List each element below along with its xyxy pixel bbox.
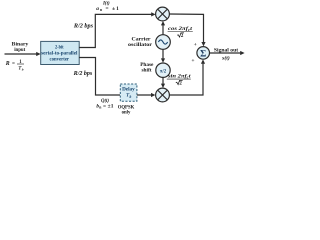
svg-text:+: + <box>194 42 197 48</box>
oscillator OSC1 <box>156 35 171 50</box>
wire: upper port out of converter <box>79 14 153 47</box>
svg-text:R/2 bps: R/2 bps <box>73 71 93 77</box>
svg-text:R: R <box>5 61 10 67</box>
svg-text:sin 2πfct: sin 2πfct <box>167 74 191 80</box>
svg-text:2: 2 <box>179 81 182 87</box>
svg-text:s(t): s(t) <box>221 57 230 62</box>
svg-text:2-bit: 2-bit <box>55 46 64 51</box>
box U1: 2-bit serial-to-parallel converter <box>41 41 79 64</box>
svg-text:=: = <box>12 61 15 67</box>
svg-text:b: b <box>130 95 132 99</box>
svg-text:serial-to-parallel: serial-to-parallel <box>41 52 78 57</box>
svg-text:π/2: π/2 <box>160 69 167 74</box>
svg-text:2: 2 <box>181 33 184 39</box>
wire: oscillator down to phase shifter <box>162 49 164 60</box>
svg-text:+: + <box>191 58 194 64</box>
wire: input arrow into converter <box>5 53 38 55</box>
svg-text:b: b <box>22 68 24 72</box>
svg-text:OQPSK: OQPSK <box>118 105 135 110</box>
svg-text:only: only <box>122 111 131 116</box>
multiplier M1 (top mixer) <box>156 7 170 21</box>
phase shifter PS1 (π/2) <box>156 63 170 77</box>
arrowhead into top multiplier <box>151 12 155 16</box>
delay box D1 (dashed) <box>120 84 137 101</box>
wire: summer output arrow <box>210 52 242 54</box>
summer S1 <box>197 47 210 60</box>
svg-text:R/2 bps: R/2 bps <box>73 23 94 29</box>
svg-text:converter: converter <box>50 58 70 63</box>
svg-text:input: input <box>14 47 25 53</box>
wire: top mixer to summer <box>169 14 203 44</box>
svg-text:bn = ±1: bn = ±1 <box>96 103 113 109</box>
wire: phase shifter down to bottom mixer <box>162 77 164 85</box>
svg-text:Σ: Σ <box>200 49 206 59</box>
svg-text:oscillator: oscillator <box>128 42 153 48</box>
wire: oscillator up to top mixer <box>162 24 164 35</box>
wire: lower port of converter to delay box <box>79 58 120 96</box>
svg-text:shift: shift <box>142 68 152 74</box>
svg-text:Delay: Delay <box>122 88 135 93</box>
wire: delay box to bottom mixer <box>137 94 153 96</box>
wire: bottom mixer to summer <box>169 62 203 95</box>
svg-text:cos 2πfct: cos 2πfct <box>168 26 193 32</box>
multiplier M2 (bottom mixer) <box>156 88 170 102</box>
svg-text:Signal out: Signal out <box>214 48 238 54</box>
